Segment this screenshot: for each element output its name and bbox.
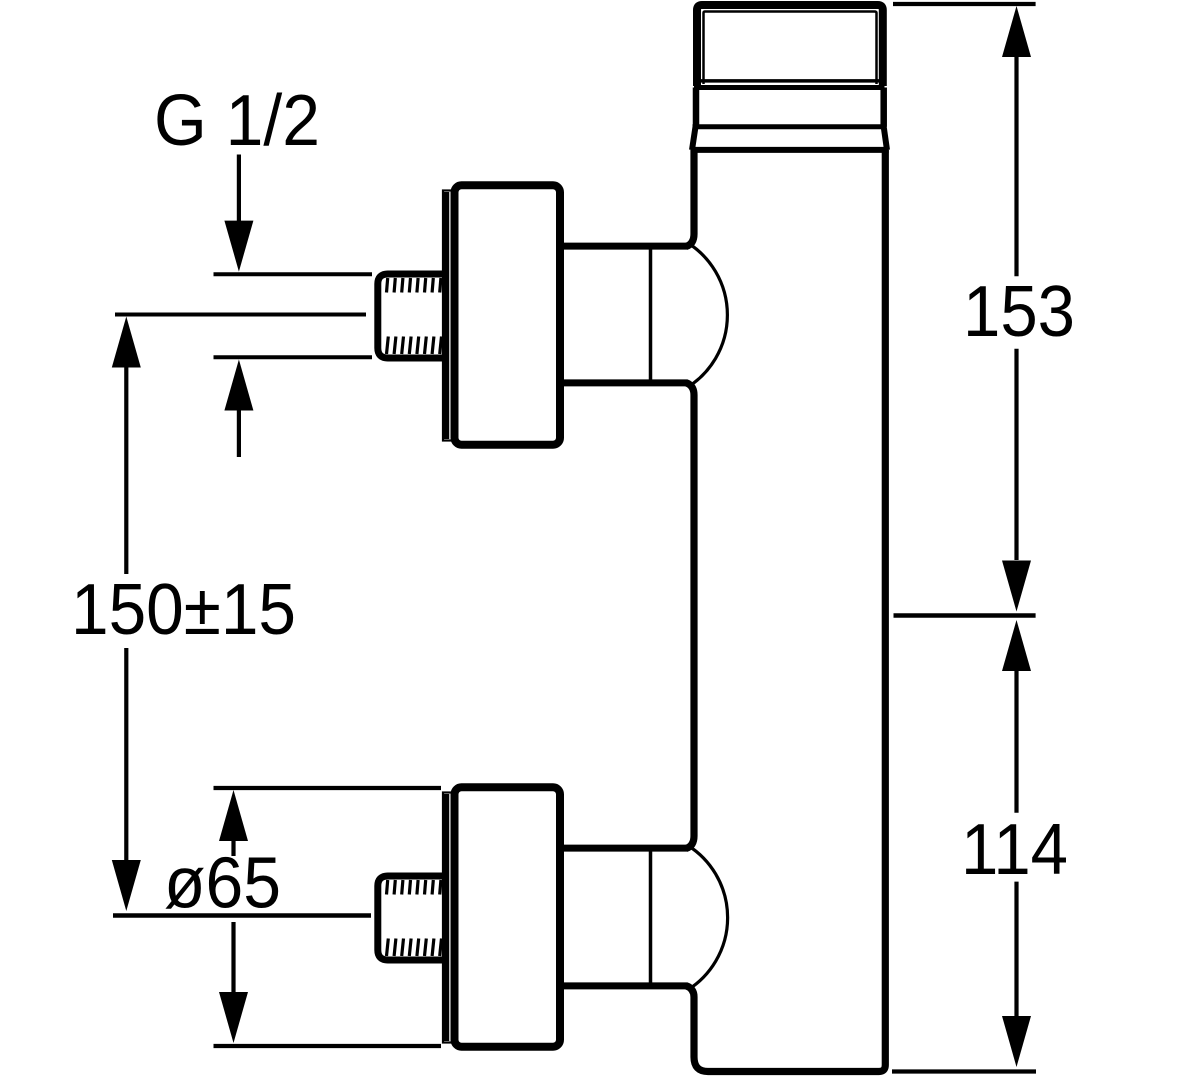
upper union pipe back line (649, 246, 653, 383)
dim 153 line lower stem (1014, 349, 1018, 560)
dim 114 line upper stem (1014, 671, 1018, 813)
lower union pipe top (562, 845, 687, 852)
arrow o65 up (219, 790, 248, 841)
svg-text:G 1/2: G 1/2 (154, 81, 320, 161)
arrow 114 up (1002, 620, 1031, 671)
upper union back plate (443, 191, 454, 441)
body collar line C (693, 124, 887, 129)
dim right extension top (893, 2, 1036, 6)
dim o65 stem upper (231, 840, 235, 856)
dim 153 line upper stem (1014, 57, 1018, 276)
arrow 114 down (1002, 1016, 1031, 1067)
lower union thread ticks (387, 880, 442, 956)
upper union threaded pipe (378, 274, 446, 358)
upper union pipe top (562, 243, 687, 250)
upper union thread ticks (387, 278, 442, 354)
body flare right (884, 127, 887, 150)
lower union pipe back line (649, 848, 653, 985)
arrow 150 down (112, 860, 141, 911)
body main outline (686, 150, 694, 247)
upper union flange (455, 185, 561, 444)
svg-text:153: 153 (963, 272, 1075, 352)
dim G12 stem upper (237, 155, 241, 223)
lower union flange (455, 787, 561, 1046)
lower union threaded pipe (378, 876, 446, 960)
dim right extension middle (894, 613, 1036, 618)
dim 150 stem upper (124, 366, 128, 574)
dim 150 stem lower (124, 648, 128, 861)
dim G12 stem lower (237, 409, 241, 457)
upper union dome arc (688, 243, 727, 387)
upper union pipe bottom (562, 379, 687, 386)
lower union dome arc (688, 846, 728, 990)
dim G12 extension top (214, 272, 373, 276)
body cap inner line (704, 12, 877, 85)
arrow G12 up (224, 360, 253, 411)
dim G12 extension bottom (214, 355, 373, 359)
arrow G12 down (224, 221, 253, 272)
body collar line A (694, 79, 885, 83)
arrow 153 down (1002, 561, 1031, 612)
body collar left edge (693, 88, 700, 127)
centerline lower union (113, 913, 371, 918)
dim o65 extension bottom (214, 1044, 442, 1048)
lower union back plate (443, 793, 454, 1043)
dim o65 stem lower (231, 922, 235, 992)
svg-text:114: 114 (961, 810, 1068, 890)
arrow 150 up (112, 317, 141, 368)
lower union pipe bottom (562, 982, 687, 989)
body flare left (692, 127, 696, 150)
svg-text:150±15: 150±15 (71, 570, 296, 650)
body cap outer (697, 5, 883, 86)
svg-text:ø65: ø65 (164, 844, 281, 924)
dim o65 extension top (214, 786, 442, 790)
body collar line D (691, 147, 889, 153)
arrow o65 down (219, 992, 248, 1043)
arrow 153 up (1002, 6, 1031, 57)
centerline upper union (115, 313, 366, 317)
body collar line B (694, 85, 885, 90)
body collar right edge (880, 88, 887, 127)
dim 114 line lower stem (1014, 882, 1018, 1016)
dim right extension bottom (892, 1069, 1036, 1073)
